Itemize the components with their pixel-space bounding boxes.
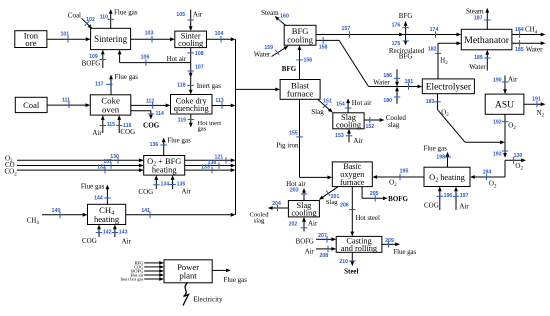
svg-text:207: 207 xyxy=(318,233,327,239)
svg-text:Air: Air xyxy=(182,188,192,196)
svg-text:106: 106 xyxy=(141,55,150,61)
svg-text:cooling: cooling xyxy=(178,39,204,48)
svg-text:COG: COG xyxy=(82,237,97,245)
svg-text:Hot air: Hot air xyxy=(167,55,187,63)
svg-text:Flue gas: Flue gas xyxy=(393,249,416,256)
svg-text:104: 104 xyxy=(215,31,224,37)
svg-text:Steel: Steel xyxy=(344,268,358,276)
svg-text:BFG: BFG xyxy=(399,53,413,61)
svg-text:Flue gas: Flue gas xyxy=(223,276,247,284)
svg-text:Inert hot gas: Inert hot gas xyxy=(120,277,143,282)
svg-text:196: 196 xyxy=(444,193,453,199)
svg-text:Electrolyser: Electrolyser xyxy=(426,83,472,93)
svg-text:160: 160 xyxy=(280,14,289,20)
svg-text:191: 191 xyxy=(532,97,541,103)
svg-text:Flue gas: Flue gas xyxy=(114,9,138,17)
svg-text:209: 209 xyxy=(385,238,394,244)
svg-text:Inert gas: Inert gas xyxy=(197,82,222,90)
svg-text:BFG: BFG xyxy=(282,65,297,73)
svg-text:and rolling: and rolling xyxy=(341,244,377,253)
svg-text:cooling: cooling xyxy=(291,208,317,217)
svg-text:174: 174 xyxy=(430,27,439,33)
svg-text:quenching: quenching xyxy=(174,104,210,113)
svg-text:Air: Air xyxy=(459,202,469,210)
svg-text:142: 142 xyxy=(103,229,112,235)
svg-text:155: 155 xyxy=(289,131,298,137)
svg-text:151: 151 xyxy=(323,98,332,104)
svg-text:BOFG: BOFG xyxy=(296,239,314,246)
svg-text:117: 117 xyxy=(95,81,103,87)
svg-text:furnace: furnace xyxy=(287,89,313,99)
svg-text:gas: gas xyxy=(198,125,207,132)
svg-text:ASU: ASU xyxy=(495,100,514,111)
svg-text:153: 153 xyxy=(335,133,344,139)
svg-text:Electricity: Electricity xyxy=(193,295,223,303)
svg-text:183: 183 xyxy=(426,99,435,105)
svg-text:210: 210 xyxy=(339,259,348,265)
svg-text:186: 186 xyxy=(383,73,392,79)
svg-text:Methanator: Methanator xyxy=(464,35,509,46)
svg-text:Water: Water xyxy=(373,78,390,86)
svg-text:cooling: cooling xyxy=(287,34,313,44)
svg-text:Air: Air xyxy=(92,129,102,137)
svg-text:135: 135 xyxy=(177,181,186,187)
svg-text:143: 143 xyxy=(119,229,128,235)
svg-text:192: 192 xyxy=(493,119,502,125)
svg-text:Coal: Coal xyxy=(23,100,40,110)
svg-text:197: 197 xyxy=(460,193,469,199)
svg-text:108: 108 xyxy=(195,51,204,57)
svg-text:Coal: Coal xyxy=(68,12,81,20)
svg-text:Hot air: Hot air xyxy=(352,99,372,107)
svg-text:Slag: Slag xyxy=(311,108,324,116)
svg-text:Air: Air xyxy=(508,75,518,83)
svg-text:heating: heating xyxy=(152,166,177,175)
svg-text:slag: slag xyxy=(254,218,265,225)
svg-text:194: 194 xyxy=(483,170,492,176)
svg-text:Water: Water xyxy=(469,63,486,71)
svg-text:140: 140 xyxy=(52,208,61,214)
svg-text:134: 134 xyxy=(161,182,170,188)
svg-text:180: 180 xyxy=(383,98,392,104)
svg-text:187: 187 xyxy=(474,16,483,22)
svg-text:184: 184 xyxy=(515,27,524,33)
svg-text:ore: ore xyxy=(25,38,36,48)
svg-text:152: 152 xyxy=(365,124,374,130)
svg-text:112: 112 xyxy=(146,99,154,105)
svg-text:Flue gas: Flue gas xyxy=(167,137,191,145)
svg-text:203: 203 xyxy=(290,188,299,194)
svg-text:176: 176 xyxy=(392,22,401,28)
svg-text:slag: slag xyxy=(388,121,400,129)
svg-text:Air: Air xyxy=(308,220,318,228)
svg-text:101: 101 xyxy=(60,31,69,37)
svg-text:Flue gas: Flue gas xyxy=(423,145,447,153)
svg-text:Water: Water xyxy=(526,45,543,53)
svg-text:furnace: furnace xyxy=(340,178,365,187)
svg-text:Hot air: Hot air xyxy=(286,180,306,188)
svg-text:COG: COG xyxy=(143,122,160,130)
svg-text:113: 113 xyxy=(215,98,223,104)
svg-text:O2 heating: O2 heating xyxy=(429,173,466,184)
svg-text:Pig iron: Pig iron xyxy=(276,142,299,150)
svg-text:COG: COG xyxy=(120,128,135,136)
svg-text:156: 156 xyxy=(304,58,313,64)
svg-text:COG: COG xyxy=(138,188,153,196)
svg-text:Steam: Steam xyxy=(466,8,484,16)
svg-text:BOFG: BOFG xyxy=(388,195,408,203)
svg-text:157: 157 xyxy=(341,26,350,32)
svg-text:COG: COG xyxy=(424,202,439,210)
svg-text:205: 205 xyxy=(370,191,379,197)
svg-text:115: 115 xyxy=(107,122,115,128)
svg-text:heating: heating xyxy=(94,214,120,224)
svg-text:Steam: Steam xyxy=(261,9,279,17)
svg-text:Air: Air xyxy=(353,137,363,145)
svg-text:195: 195 xyxy=(400,169,409,175)
svg-text:Air: Air xyxy=(305,249,315,256)
svg-text:103: 103 xyxy=(145,31,154,37)
svg-text:111: 111 xyxy=(62,98,70,104)
svg-text:193: 193 xyxy=(493,151,502,157)
svg-text:154: 154 xyxy=(336,101,345,107)
svg-text:BFG: BFG xyxy=(399,12,413,20)
svg-text:114: 114 xyxy=(156,111,164,117)
svg-text:oven: oven xyxy=(102,104,120,114)
svg-text:Sintering: Sintering xyxy=(94,34,127,44)
svg-text:204: 204 xyxy=(272,201,281,207)
svg-text:Air: Air xyxy=(193,11,203,19)
svg-text:181: 181 xyxy=(404,79,413,85)
svg-text:182: 182 xyxy=(428,47,437,53)
svg-text:130: 130 xyxy=(514,153,523,159)
svg-text:Flue gas: Flue gas xyxy=(115,73,139,81)
svg-text:Water: Water xyxy=(254,51,271,59)
svg-text:141: 141 xyxy=(141,208,150,214)
svg-text:Slag: Slag xyxy=(326,199,338,206)
svg-text:132: 132 xyxy=(97,164,106,170)
svg-text:202: 202 xyxy=(289,221,298,227)
svg-text:133: 133 xyxy=(201,165,210,171)
svg-text:plant: plant xyxy=(180,271,198,281)
svg-text:206: 206 xyxy=(340,203,349,209)
svg-text:107: 107 xyxy=(195,64,204,70)
svg-text:119: 119 xyxy=(178,118,186,124)
svg-text:cooling: cooling xyxy=(336,120,362,129)
svg-text:Hot steel: Hot steel xyxy=(356,215,380,222)
svg-text:158: 158 xyxy=(319,45,328,51)
svg-text:105: 105 xyxy=(176,12,185,18)
svg-text:136: 136 xyxy=(150,142,159,148)
svg-text:Flue gas: Flue gas xyxy=(81,183,105,191)
svg-text:Air: Air xyxy=(122,237,132,245)
svg-text:198: 198 xyxy=(436,155,445,161)
svg-text:189: 189 xyxy=(474,55,483,61)
svg-text:110: 110 xyxy=(100,14,108,20)
svg-text:185: 185 xyxy=(515,47,524,53)
svg-text:208: 208 xyxy=(319,253,328,259)
svg-text:144: 144 xyxy=(94,195,103,201)
svg-text:190: 190 xyxy=(493,78,502,84)
svg-text:118: 118 xyxy=(177,83,185,89)
svg-text:BOFG: BOFG xyxy=(82,60,101,68)
svg-text:175: 175 xyxy=(392,41,401,47)
svg-text:102: 102 xyxy=(86,17,95,23)
